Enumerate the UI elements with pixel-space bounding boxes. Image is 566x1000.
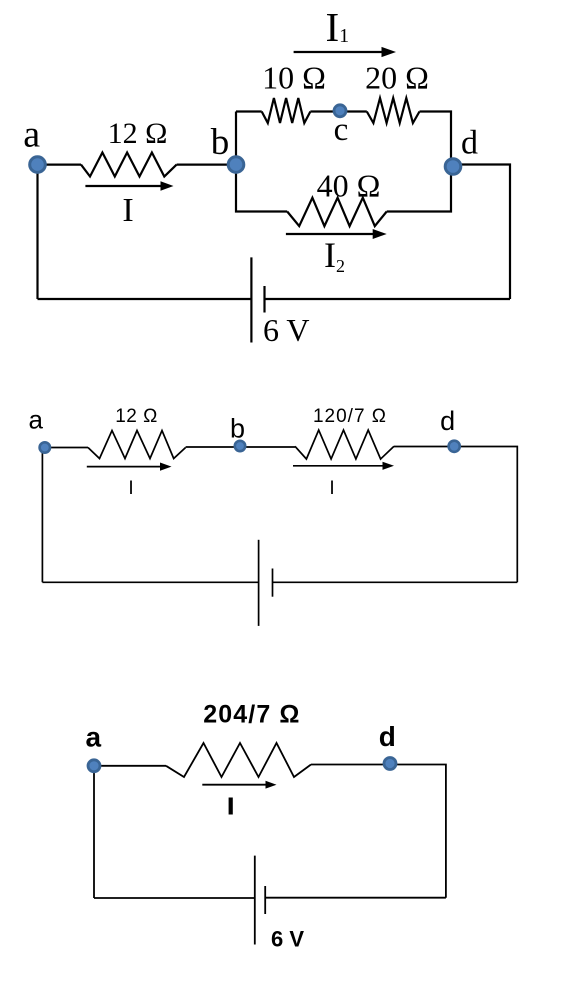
current arrow I left line (middle) [87, 466, 161, 468]
svg-text:12 Ω: 12 Ω [108, 117, 168, 150]
wire R7 through node d3 to right side down [311, 765, 446, 898]
wire battery to bottom left [38, 298, 252, 300]
current arrow I head [161, 181, 174, 190]
svg-text:c: c [334, 112, 349, 148]
svg-text:a: a [28, 405, 43, 435]
svg-text:204/7 Ω: 204/7 Ω [203, 700, 300, 728]
current arrow I2 line [286, 233, 373, 235]
resistor R2 10Ω zigzag [262, 98, 311, 123]
battery BT2 short plate [272, 569, 274, 597]
wire node b up to top branch [235, 112, 237, 165]
battery BT1 short plate [263, 286, 265, 313]
resistor R3 20Ω zigzag [367, 98, 420, 123]
wire R1 to node b [177, 164, 236, 166]
node d2 [449, 441, 460, 452]
wire a2 to R5 [45, 447, 88, 449]
wire R4 up to node d [387, 165, 451, 212]
battery BT3 short plate [264, 886, 266, 914]
svg-text:10 Ω: 10 Ω [262, 60, 326, 96]
svg-text:12 Ω: 12 Ω [115, 406, 158, 427]
svg-text:I: I [228, 793, 234, 819]
node d [445, 159, 461, 175]
svg-text:6 V: 6 V [263, 312, 310, 348]
battery BT1 long plate [250, 257, 252, 342]
wire battery 2 to bottom left [42, 581, 258, 583]
battery BT2 long plate [258, 540, 260, 626]
wire bottom right to battery [265, 298, 511, 300]
wire top branch b to R2 [236, 110, 262, 112]
svg-text:d: d [440, 406, 455, 436]
node a3 [88, 760, 100, 772]
resistor R1 12Ω zigzag [81, 153, 177, 177]
current arrow I2 head [373, 229, 387, 239]
wire bottom right to battery 2 [273, 581, 518, 583]
current arrow I line (bottom) [202, 784, 266, 786]
svg-text:a: a [86, 722, 102, 753]
resistor R5 12Ω zigzag [88, 431, 186, 459]
node a2 [40, 442, 50, 452]
svg-text:I2: I2 [324, 235, 345, 276]
wire R3 to corner down to node d [420, 112, 452, 165]
svg-text:I: I [128, 478, 133, 499]
current arrow I right line (middle) [293, 465, 384, 467]
node c [334, 105, 346, 117]
resistor R4 40Ω zigzag [287, 198, 387, 226]
wire battery 3 to bottom left [94, 897, 255, 899]
svg-text:d: d [461, 125, 478, 162]
current arrow I1 head [382, 47, 397, 57]
node b [228, 157, 244, 173]
svg-text:d: d [379, 721, 396, 752]
resistor R6 120/7Ω zigzag [295, 430, 394, 459]
svg-text:20 Ω: 20 Ω [365, 60, 429, 96]
resistor R7 204/7Ω zigzag [166, 743, 311, 777]
svg-text:I1: I1 [326, 4, 350, 50]
wire R6 through node d2 to right side down [394, 447, 517, 583]
current arrow I right head (middle) [383, 462, 395, 470]
svg-text:a: a [23, 114, 40, 156]
svg-text:6 V: 6 V [271, 927, 304, 952]
wire bottom right to battery 3 [265, 897, 446, 899]
battery BT3 long plate [254, 856, 256, 945]
wire R5 through node b2 to R6 [186, 446, 295, 448]
current arrow I left head (middle) [160, 463, 172, 471]
svg-text:b: b [230, 414, 245, 444]
wire node b down to bottom branch [236, 165, 287, 212]
wire left side up to node a3 [93, 766, 95, 898]
wire node d to right side down [452, 165, 510, 300]
wire left side up to node a [36, 165, 38, 299]
wire R2 through node c to R3 [310, 110, 366, 112]
svg-text:b: b [211, 122, 230, 163]
node d3 [384, 758, 396, 770]
wire a to R1 [38, 164, 82, 166]
node b2 [235, 441, 245, 451]
wire a3 to R7 [94, 765, 166, 767]
current arrow I head (bottom) [266, 781, 277, 789]
svg-text:120/7 Ω: 120/7 Ω [313, 406, 387, 427]
current arrow I line [85, 185, 162, 187]
current arrow I1 line [294, 51, 383, 53]
wire left side up to node a2 [41, 448, 43, 583]
svg-text:I: I [329, 478, 334, 499]
svg-text:I: I [122, 192, 133, 229]
node a [30, 157, 46, 173]
svg-text:40 Ω: 40 Ω [317, 168, 381, 204]
